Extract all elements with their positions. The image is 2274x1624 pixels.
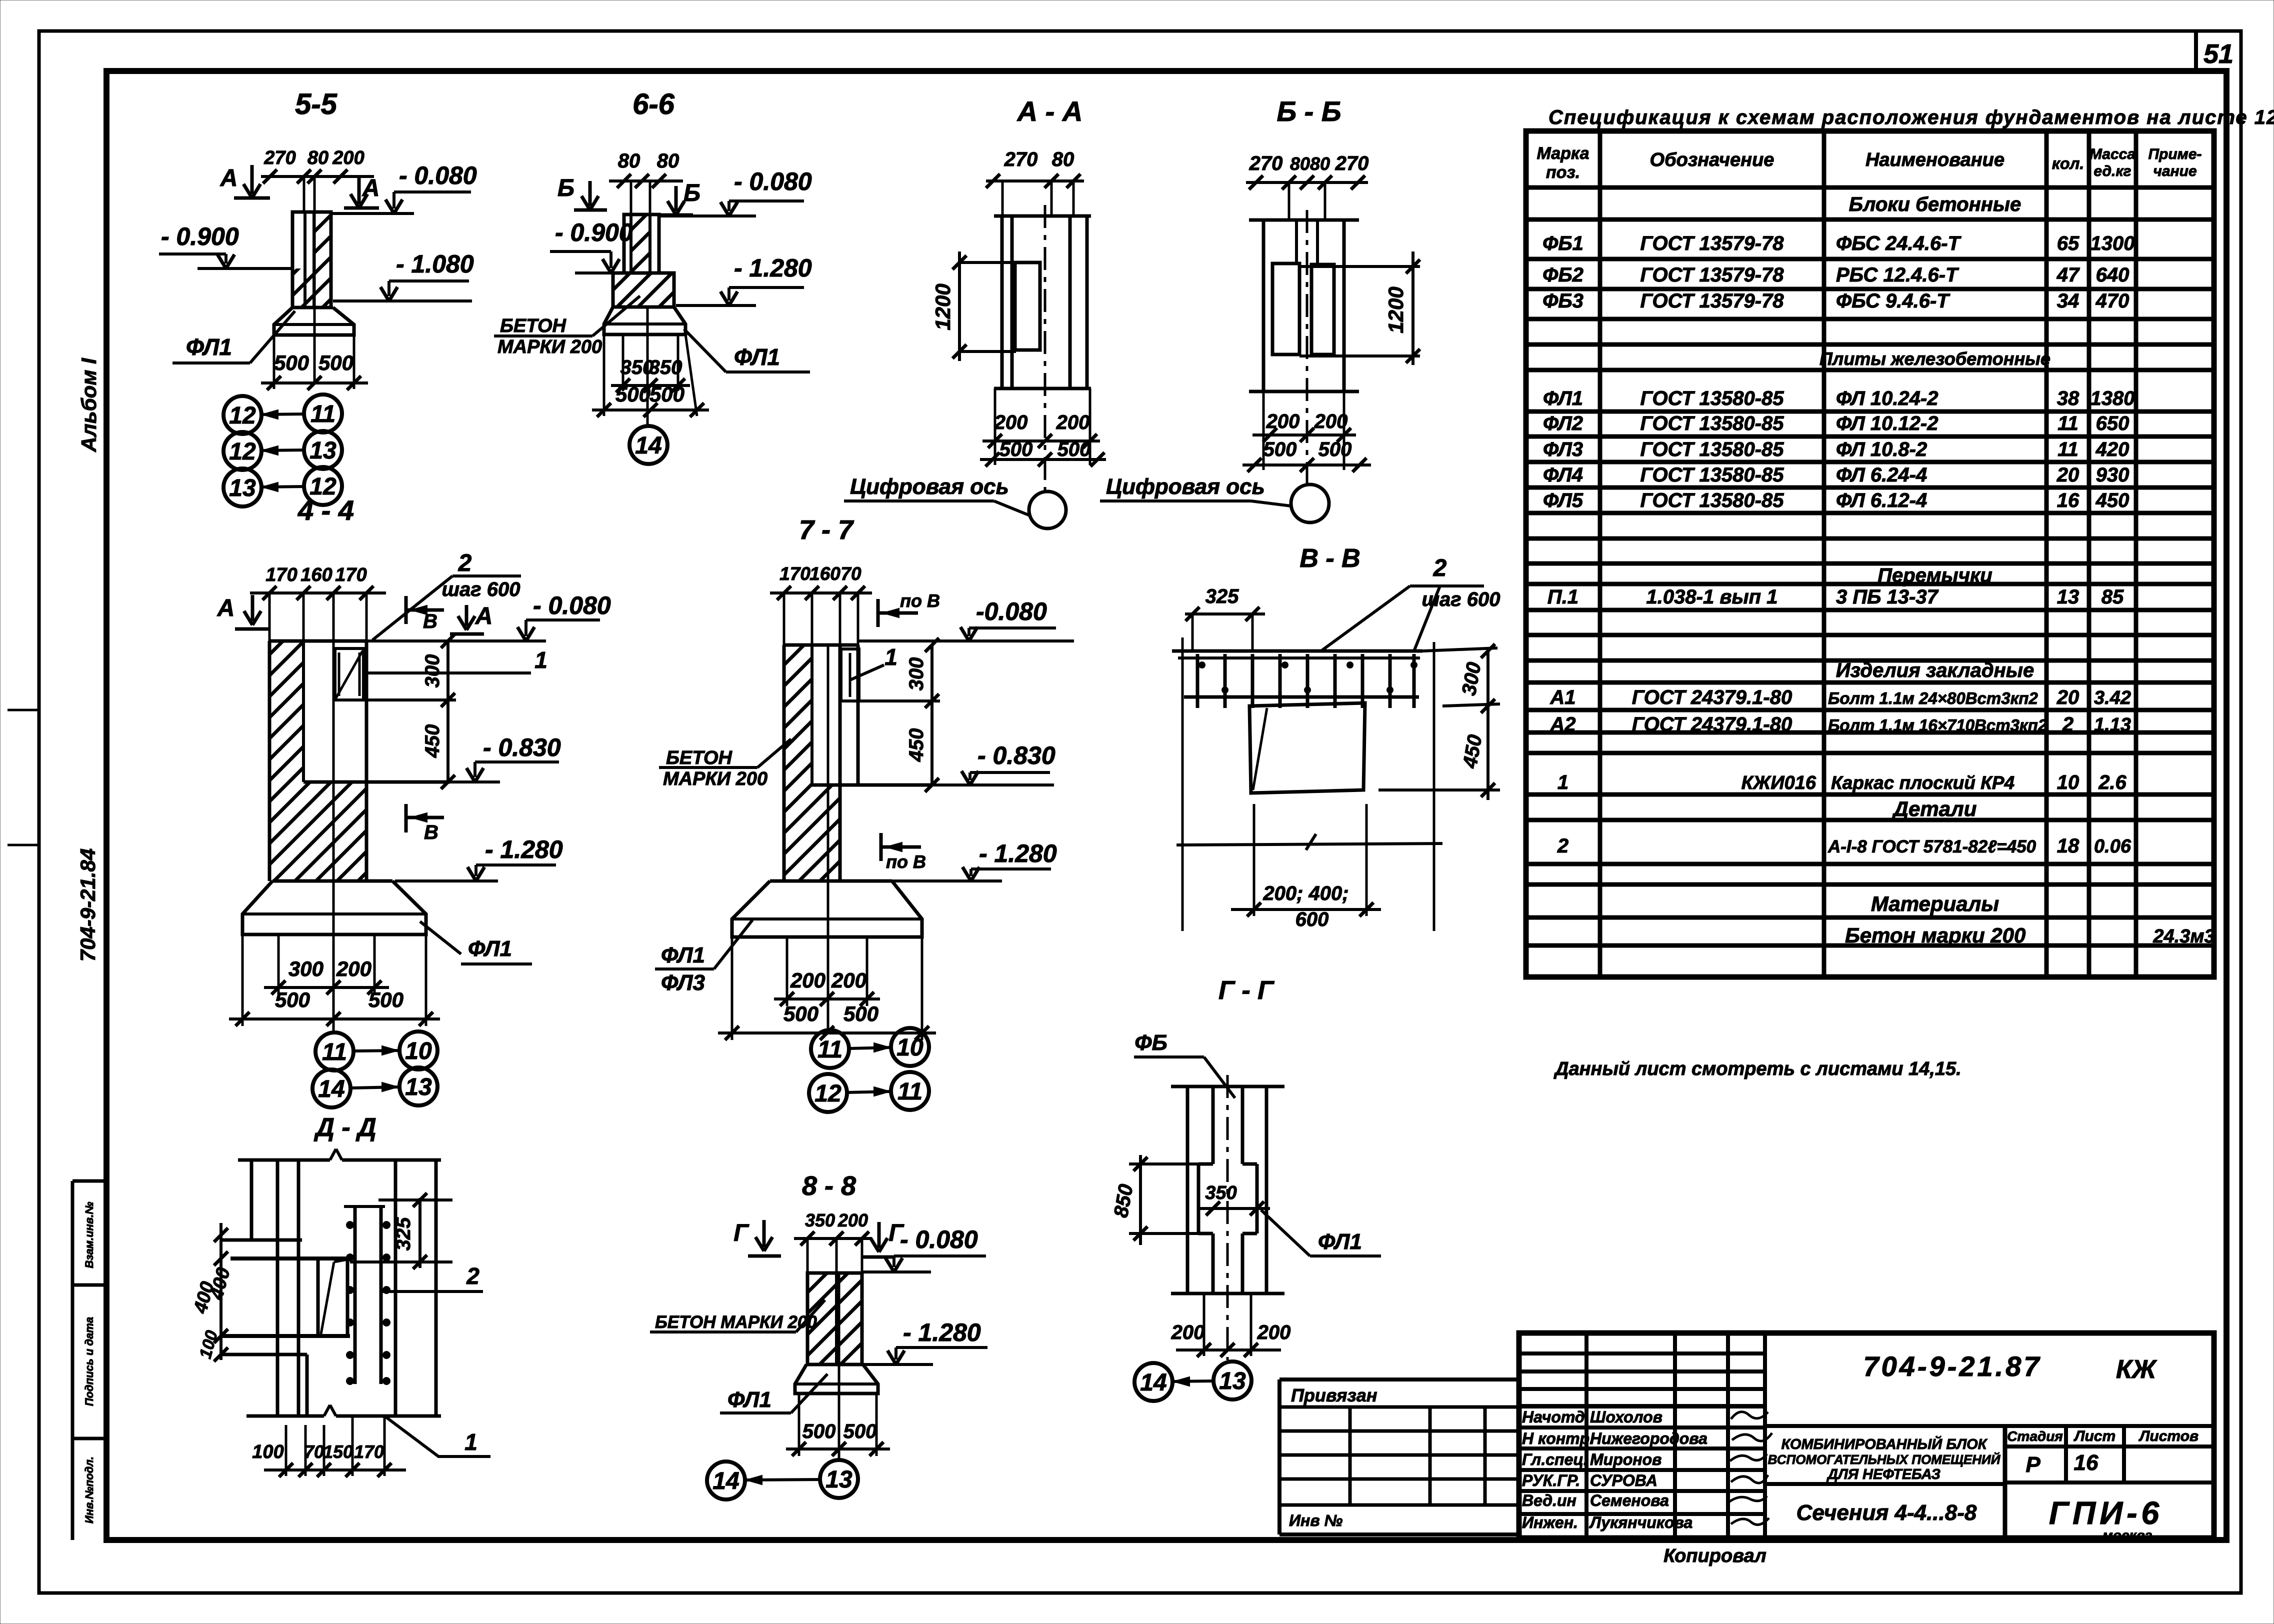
- svg-text:Сечения 4-4...8-8: Сечения 4-4...8-8: [1796, 1500, 1977, 1525]
- svg-text:13: 13: [309, 437, 336, 464]
- section D-D dimension 325: [418, 1198, 421, 1268]
- svg-text:65: 65: [2057, 232, 2079, 254]
- svg-text:160: 160: [809, 563, 840, 584]
- svg-text:ФЛ1: ФЛ1: [661, 943, 705, 967]
- svg-text:ГОСТ 13580-85: ГОСТ 13580-85: [1640, 387, 1784, 409]
- specification table outer frame: [1526, 131, 2214, 977]
- svg-text:34: 34: [2057, 290, 2079, 312]
- svg-text:Альбом I: Альбом I: [77, 357, 100, 452]
- svg-text:150: 150: [323, 1441, 353, 1462]
- section 4-4 wall outline with hatch: [269, 641, 303, 881]
- specification table header row: [1526, 185, 2214, 190]
- svg-text:Плиты железобетонные: Плиты железобетонные: [1819, 348, 2050, 369]
- svg-text:500: 500: [368, 988, 403, 1011]
- page number box 51: [2194, 31, 2198, 71]
- section V-V bent plate detail: [1249, 703, 1365, 793]
- svg-text:ФЛ 6.12-4: ФЛ 6.12-4: [1836, 489, 1927, 511]
- section A-A wall plan outline: [994, 214, 1091, 218]
- svg-text:Блоки бетонные: Блоки бетонные: [1849, 193, 2021, 215]
- section 7-7 footing trapezoid: [770, 879, 892, 883]
- section D-D wall verticals: [250, 1160, 253, 1240]
- svg-text:Б - Б: Б - Б: [1276, 95, 1341, 127]
- svg-text:ФЛ1: ФЛ1: [734, 344, 780, 370]
- svg-text:ед.кг: ед.кг: [2093, 163, 2131, 179]
- section D-D inner block with fold: [316, 1259, 320, 1335]
- svg-text:ФЛ3: ФЛ3: [1543, 438, 1583, 460]
- svg-text:КОМБИНИРОВАННЫЙ БЛОК: КОМБИНИРОВАННЫЙ БЛОК: [1781, 1435, 1987, 1452]
- section 7-7 bottom dimension 200 200: [786, 937, 788, 1006]
- svg-text:ГОСТ 24379.1-80: ГОСТ 24379.1-80: [1632, 713, 1792, 735]
- svg-text:- 0.900: - 0.900: [555, 218, 633, 246]
- section 4-4 block chain circles row 2: [312, 1069, 350, 1107]
- section 4-4 cut mark V top: [404, 596, 408, 624]
- svg-text:ГПИ-6: ГПИ-6: [2049, 1495, 2163, 1531]
- svg-text:200: 200: [332, 147, 364, 168]
- section V-V right extension line: [1433, 642, 1435, 931]
- section 4-4 footing FL1 trapezoid: [272, 879, 392, 883]
- svg-text:500: 500: [1318, 438, 1352, 460]
- section A-A centerline: [1044, 205, 1046, 491]
- svg-text:Д - Д: Д - Д: [313, 1113, 376, 1142]
- svg-text:4 - 4: 4 - 4: [297, 494, 354, 526]
- svg-text:1: 1: [534, 647, 547, 673]
- svg-text:В: В: [424, 821, 438, 843]
- svg-text:ГОСТ 13579-78: ГОСТ 13579-78: [1640, 232, 1784, 254]
- svg-text:Миронов: Миронов: [1590, 1450, 1662, 1468]
- svg-text:А: А: [217, 595, 235, 621]
- svg-text:11: 11: [322, 1039, 347, 1065]
- section 5-5 block chain circles row 1: [223, 396, 261, 434]
- svg-text:Лист: Лист: [2073, 1428, 2115, 1444]
- svg-text:13: 13: [2057, 586, 2079, 608]
- section B-B bottom dimension 200 200: [1262, 391, 1265, 470]
- section 7-7 cut mark poV bottom: [879, 833, 883, 861]
- section B-B dimension 1200: [1411, 251, 1414, 365]
- svg-text:- 0.830: - 0.830: [483, 733, 561, 761]
- svg-text:350: 350: [649, 356, 682, 378]
- svg-text:80: 80: [618, 150, 640, 172]
- svg-text:А2: А2: [1549, 713, 1575, 735]
- svg-text:Б: Б: [557, 175, 574, 201]
- section V-V bottom full dimension with break: [1176, 843, 1442, 845]
- svg-text:13: 13: [825, 1466, 852, 1493]
- svg-text:200: 200: [1314, 410, 1348, 432]
- section G-G pier stepped outline: [1211, 1086, 1215, 1164]
- svg-text:ФБ: ФБ: [1134, 1030, 1167, 1055]
- svg-text:200: 200: [790, 968, 825, 992]
- section A-A axis circle: [1029, 491, 1066, 528]
- svg-text:200: 200: [831, 968, 866, 992]
- svg-text:Инжен.: Инжен.: [1522, 1513, 1578, 1531]
- svg-text:МАРКИ 200: МАРКИ 200: [663, 768, 767, 789]
- section 5-5 footing FL1 trapezoid: [292, 306, 333, 309]
- svg-text:704-9-21.87: 704-9-21.87: [1863, 1350, 2041, 1382]
- svg-text:11: 11: [897, 1078, 922, 1105]
- svg-text:13: 13: [229, 475, 256, 501]
- section V-V rebar ladder item 2: [1172, 649, 1422, 653]
- svg-text:12: 12: [229, 402, 256, 429]
- svg-text:Р: Р: [2025, 1452, 2040, 1477]
- svg-text:ДЛЯ НЕФТЕБАЗ: ДЛЯ НЕФТЕБАЗ: [1826, 1466, 1940, 1482]
- section 6-6 upper spread block hatched: [613, 273, 674, 307]
- section G-G dimension 850: [1139, 1155, 1142, 1245]
- svg-text:14: 14: [1140, 1369, 1166, 1396]
- section 6-6 bottom dimension 350 350: [622, 334, 624, 391]
- svg-text:А1: А1: [1549, 686, 1575, 708]
- svg-text:Обозначение: Обозначение: [1650, 149, 1774, 170]
- svg-text:ФБ2: ФБ2: [1542, 264, 1583, 286]
- svg-text:ГОСТ 13579-78: ГОСТ 13579-78: [1640, 264, 1784, 286]
- svg-text:1200: 1200: [931, 283, 954, 330]
- svg-text:- 0.080: - 0.080: [399, 161, 477, 189]
- svg-text:170: 170: [354, 1441, 384, 1462]
- svg-text:640: 640: [2096, 264, 2129, 286]
- svg-text:ФЛ 10.8-2: ФЛ 10.8-2: [1836, 438, 1927, 460]
- section D-D rebar ladder vertical: [353, 1206, 357, 1384]
- svg-text:350: 350: [1205, 1182, 1236, 1203]
- title block section name cell: [1765, 1482, 2005, 1486]
- section 6-6 column with hatch: [624, 214, 659, 273]
- section B-B left block outline: [1272, 263, 1299, 354]
- svg-text:А: А: [220, 165, 238, 191]
- svg-text:1200: 1200: [1384, 286, 1407, 333]
- svg-text:270: 270: [1335, 152, 1369, 174]
- svg-text:500: 500: [802, 1420, 836, 1442]
- svg-text:Цифровая ось: Цифровая ось: [850, 474, 1009, 499]
- svg-text:ГОСТ 13580-85: ГОСТ 13580-85: [1640, 412, 1784, 434]
- svg-text:13: 13: [405, 1074, 432, 1100]
- svg-text:170: 170: [335, 564, 366, 585]
- svg-text:В - В: В - В: [1299, 544, 1360, 573]
- section 4-4 label FL1: [420, 921, 461, 954]
- svg-text:300: 300: [905, 657, 927, 691]
- section D-D bottom dimensions 100 70 150 170: [285, 1425, 287, 1476]
- section G-G centerline: [1226, 1075, 1229, 1360]
- svg-text:ФЛ 10.12-2: ФЛ 10.12-2: [1836, 412, 1938, 434]
- section D-D callout 2: [382, 1290, 483, 1293]
- svg-text:1300: 1300: [2090, 232, 2135, 254]
- svg-text:Б: Б: [683, 180, 700, 206]
- svg-text:500: 500: [843, 1420, 877, 1442]
- svg-text:470: 470: [2095, 290, 2129, 312]
- svg-text:200; 400;: 200; 400;: [1262, 882, 1348, 904]
- section V-V left extension line: [1181, 637, 1184, 931]
- svg-text:200: 200: [336, 957, 371, 980]
- svg-text:Г: Г: [733, 1220, 749, 1246]
- title block signature rows: [1519, 1404, 1765, 1408]
- svg-text:А: А: [475, 603, 493, 629]
- svg-text:24.3м3: 24.3м3: [2152, 926, 2214, 947]
- svg-text:500: 500: [275, 988, 310, 1011]
- svg-text:160: 160: [300, 564, 332, 585]
- svg-text:СУРОВА: СУРОВА: [1590, 1471, 1657, 1489]
- section 4-4 callout 1 leader: [363, 671, 531, 674]
- section 4-4 block chain circles row 1: [315, 1032, 353, 1070]
- svg-text:200: 200: [994, 411, 1028, 433]
- svg-text:3.42: 3.42: [2094, 687, 2131, 708]
- section 7-7 wall outline with hatch: [784, 645, 812, 881]
- svg-text:2: 2: [1433, 555, 1447, 581]
- title block stage sheet header: [2003, 1426, 2007, 1538]
- svg-text:8 - 8: 8 - 8: [802, 1171, 856, 1201]
- svg-text:- 1.080: - 1.080: [396, 250, 474, 278]
- section D-D wall plan top line with break: [238, 1158, 330, 1162]
- section B-B centerline: [1306, 210, 1308, 484]
- svg-text:по В: по В: [886, 851, 926, 872]
- section 5-5 column with hatch: [292, 212, 331, 307]
- svg-text:Инв.№подл.: Инв.№подл.: [83, 1456, 95, 1523]
- section 7-7 callout 1 leader: [850, 665, 884, 680]
- svg-text:200: 200: [1266, 410, 1300, 432]
- svg-text:500: 500: [274, 351, 309, 374]
- svg-text:Изделия закладные: Изделия закладные: [1836, 659, 2034, 681]
- svg-text:1: 1: [884, 644, 897, 670]
- svg-text:500: 500: [999, 438, 1033, 460]
- svg-text:325: 325: [1205, 585, 1239, 607]
- svg-text:1.038-1 вып 1: 1.038-1 вып 1: [1646, 586, 1778, 608]
- svg-text:ФЛ 6.24-4: ФЛ 6.24-4: [1836, 464, 1927, 486]
- svg-text:1: 1: [464, 1429, 477, 1455]
- svg-text:14: 14: [318, 1076, 344, 1102]
- svg-text:москва: москва: [2102, 1527, 2152, 1543]
- svg-text:51: 51: [2203, 39, 2233, 69]
- title block outer frame: [1519, 1333, 2214, 1538]
- svg-text:500: 500: [1263, 438, 1297, 460]
- section 6-6 bottom dimension 500 500: [603, 334, 605, 416]
- svg-text:шаг 600: шаг 600: [441, 578, 520, 600]
- svg-text:450: 450: [2095, 489, 2129, 511]
- svg-text:500: 500: [1057, 438, 1091, 460]
- section 6-6 axis line: [646, 307, 649, 426]
- svg-text:Нижегородова: Нижегородова: [1590, 1429, 1707, 1447]
- svg-text:300: 300: [421, 654, 443, 688]
- svg-text:500: 500: [318, 351, 353, 374]
- section B-B axis circle: [1291, 484, 1329, 522]
- section D-D bottom line with break: [246, 1414, 324, 1418]
- section 7-7 block chain circles row 1: [811, 1030, 849, 1068]
- svg-text:70: 70: [304, 1441, 324, 1462]
- svg-text:12: 12: [814, 1080, 841, 1107]
- section B-B right block outline: [1311, 264, 1334, 354]
- svg-text:Листов: Листов: [2138, 1428, 2198, 1444]
- svg-text:ГОСТ 13580-85: ГОСТ 13580-85: [1640, 464, 1784, 486]
- svg-text:47: 47: [2056, 264, 2080, 286]
- svg-text:ФЛ2: ФЛ2: [1543, 412, 1583, 434]
- svg-text:ФЛ1: ФЛ1: [1543, 387, 1583, 409]
- svg-text:РБС 12.4.6-Т: РБС 12.4.6-Т: [1836, 264, 1959, 286]
- section 4-4 bottom dimension 300 200: [241, 934, 244, 1026]
- section A-A bottom dimension 200 200: [994, 388, 996, 465]
- svg-text:КЖ: КЖ: [2116, 1355, 2157, 1384]
- svg-text:600: 600: [1295, 908, 1329, 930]
- svg-text:1: 1: [1557, 771, 1568, 793]
- svg-text:500: 500: [615, 382, 650, 406]
- specification table row lines: [1526, 217, 2214, 222]
- svg-text:270: 270: [1004, 148, 1038, 170]
- svg-text:ФБС 9.4.6-Т: ФБС 9.4.6-Т: [1836, 290, 1950, 312]
- svg-text:2.6: 2.6: [2098, 771, 2126, 793]
- svg-text:- 0.830: - 0.830: [977, 741, 1055, 769]
- svg-text:чание: чание: [2153, 163, 2196, 179]
- svg-text:П.1: П.1: [1547, 586, 1578, 608]
- section D-D step lines: [222, 1238, 302, 1242]
- svg-text:1.13: 1.13: [2094, 714, 2131, 735]
- svg-text:Бетон марки 200: Бетон марки 200: [1845, 923, 2025, 947]
- svg-text:КЖИ016: КЖИ016: [1741, 772, 1816, 793]
- svg-text:Цифровая ось: Цифровая ось: [1106, 474, 1265, 499]
- section 7-7 bottom dimension 500 500: [731, 937, 733, 1040]
- title block document number cell: [1765, 1424, 2214, 1428]
- svg-text:16: 16: [2074, 1450, 2098, 1475]
- section 4-4 cut mark V bottom: [404, 804, 408, 832]
- section 8-8 axis line: [838, 1273, 840, 1461]
- svg-text:200: 200: [1056, 411, 1090, 433]
- svg-text:2: 2: [466, 1263, 479, 1289]
- svg-text:Материалы: Материалы: [1871, 892, 1999, 915]
- svg-text:11: 11: [2057, 412, 2078, 434]
- svg-text:БЕТОН: БЕТОН: [666, 747, 733, 768]
- svg-text:450: 450: [421, 724, 443, 758]
- svg-text:Стадия: Стадия: [2007, 1428, 2063, 1444]
- svg-text:11: 11: [817, 1036, 842, 1063]
- section G-G block chain circles: [1134, 1363, 1172, 1401]
- svg-text:11: 11: [310, 401, 335, 427]
- svg-text:Перемычки: Перемычки: [1877, 564, 1992, 586]
- svg-text:500: 500: [649, 382, 684, 406]
- svg-text:2: 2: [458, 550, 472, 576]
- section 8-8 footing FL1 trapezoid: [806, 1363, 863, 1366]
- svg-text:- 0.080: - 0.080: [533, 591, 611, 619]
- section 6-6 axis circle 14: [629, 426, 667, 464]
- svg-text:80: 80: [1052, 148, 1074, 170]
- svg-text:- 0.900: - 0.900: [161, 222, 239, 250]
- section 4-4 recess shelf line: [303, 780, 450, 784]
- svg-text:ФЛ4: ФЛ4: [1543, 464, 1583, 486]
- svg-text:РУК.ГР.: РУК.ГР.: [1522, 1471, 1580, 1489]
- svg-text:ФБ3: ФБ3: [1542, 290, 1583, 312]
- svg-text:по В: по В: [900, 590, 940, 611]
- svg-text:Приме-: Приме-: [2148, 146, 2201, 162]
- section 7-7 dimension 300 450 vertical: [930, 645, 933, 785]
- svg-text:650: 650: [2096, 412, 2129, 434]
- svg-text:кол.: кол.: [2052, 154, 2084, 172]
- svg-text:6-6: 6-6: [632, 88, 675, 120]
- svg-text:80: 80: [307, 147, 328, 168]
- svg-text:3 ПБ 13-37: 3 ПБ 13-37: [1836, 586, 1939, 608]
- section 8-8 column with hatch: [807, 1273, 862, 1364]
- svg-text:38: 38: [2057, 387, 2079, 409]
- svg-text:20: 20: [2056, 686, 2079, 708]
- svg-text:- 1.280: - 1.280: [903, 1318, 981, 1346]
- svg-text:- 1.280: - 1.280: [485, 835, 563, 863]
- bottom-left stamp column: [71, 1181, 74, 1540]
- svg-text:200: 200: [1257, 1321, 1291, 1343]
- svg-text:930: 930: [2096, 464, 2129, 486]
- svg-text:ФЛ5: ФЛ5: [1543, 489, 1583, 511]
- svg-text:Лукянчикова: Лукянчикова: [1589, 1513, 1692, 1531]
- svg-text:325: 325: [392, 1217, 414, 1250]
- svg-text:14: 14: [635, 432, 661, 459]
- title block privyazan sub-table: [1279, 1377, 1519, 1381]
- section 5-5 bottom dimension 500 500: [273, 335, 275, 389]
- svg-text:Каркас плоский КР4: Каркас плоский КР4: [1831, 772, 2014, 793]
- svg-text:170: 170: [779, 563, 810, 584]
- section 5-5 axis line: [313, 212, 316, 383]
- svg-text:Взам.инв.№: Взам.инв.№: [83, 1201, 95, 1268]
- section G-G wall plan outline: [1171, 1085, 1284, 1088]
- svg-text:поз.: поз.: [1546, 163, 1580, 182]
- section 4-4 rebar cage 1 in recess: [335, 648, 363, 700]
- svg-text:Семенова: Семенова: [1590, 1491, 1669, 1509]
- section D-D callout 1: [384, 1416, 490, 1456]
- svg-text:Марка: Марка: [1537, 144, 1589, 163]
- svg-text:12: 12: [229, 438, 256, 465]
- section 8-8 block chain circles: [707, 1461, 745, 1499]
- svg-text:Детали: Детали: [1892, 797, 1977, 820]
- svg-text:ФЛ1: ФЛ1: [468, 936, 512, 961]
- svg-text:БЕТОН МАРКИ 200: БЕТОН МАРКИ 200: [655, 1312, 817, 1332]
- svg-text:- 1.280: - 1.280: [979, 839, 1057, 867]
- section A-A block outline: [1015, 262, 1040, 350]
- section 7-7 cut mark poV top: [876, 599, 880, 627]
- svg-text:5-5: 5-5: [295, 88, 337, 120]
- svg-text:ВСПОМОГАТЕЛЬНЫХ ПОМЕЩЕНИЙ: ВСПОМОГАТЕЛЬНЫХ ПОМЕЩЕНИЙ: [1768, 1452, 2001, 1467]
- svg-text:500: 500: [843, 1002, 878, 1025]
- section D-D left dimensions 400 400 100: [219, 1223, 222, 1360]
- specification table column lines: [1598, 131, 1602, 977]
- title block signature scribbles: [1729, 1412, 1772, 1525]
- svg-text:Спецификация к схемам располож: Спецификация к схемам расположения фунда…: [1548, 106, 2274, 128]
- svg-text:Наименование: Наименование: [1865, 149, 2004, 170]
- svg-text:ГОСТ 13580-85: ГОСТ 13580-85: [1640, 489, 1784, 511]
- title block GPI-6 logo: [2005, 1480, 2214, 1484]
- svg-text:13: 13: [1219, 1368, 1246, 1394]
- svg-text:Данный лист смотреть с листа: Данный лист смотреть с листами 14,15.: [1553, 1058, 1961, 1079]
- svg-text:200: 200: [1171, 1321, 1205, 1343]
- svg-text:200: 200: [837, 1210, 868, 1230]
- svg-text:ФЛ1: ФЛ1: [1318, 1229, 1362, 1254]
- svg-text:11: 11: [2057, 438, 2078, 460]
- svg-text:ГОСТ 13579-78: ГОСТ 13579-78: [1640, 290, 1784, 312]
- section 4-4 dimension 300 vertical: [446, 641, 449, 782]
- svg-text:Болт 1.1м 24×80Вст3кп2: Болт 1.1м 24×80Вст3кп2: [1828, 689, 2038, 707]
- svg-text:1380: 1380: [2090, 387, 2135, 409]
- svg-text:70: 70: [840, 563, 861, 584]
- svg-text:10: 10: [2057, 771, 2079, 793]
- svg-text:- 0.080: - 0.080: [734, 167, 812, 195]
- section G-G bottom dimension 200 200: [1203, 1293, 1205, 1356]
- section 7-7 recess shelf line: [812, 783, 932, 787]
- svg-text:270: 270: [1249, 152, 1283, 174]
- section 4-4 axis line: [332, 593, 335, 1031]
- svg-text:МАРКИ 200: МАРКИ 200: [497, 336, 602, 357]
- section V-V right dimension 300 450: [1486, 648, 1489, 800]
- svg-text:Г - Г: Г - Г: [1218, 976, 1274, 1005]
- svg-text:Шохолов: Шохолов: [1590, 1408, 1662, 1426]
- section 6-6 footing trapezoid: [604, 307, 685, 334]
- svg-text:10: 10: [405, 1038, 432, 1064]
- svg-text:Начотд: Начотд: [1522, 1408, 1585, 1426]
- svg-text:А - А: А - А: [1016, 95, 1083, 127]
- svg-text:7 - 7: 7 - 7: [799, 515, 854, 545]
- svg-text:- 1.280: - 1.280: [734, 254, 812, 282]
- section 7-7 axis line: [827, 645, 829, 1031]
- section 5-5 block chain circles row 2: [223, 432, 261, 470]
- section 7-7 block chain circles row 2: [809, 1074, 847, 1112]
- svg-text:Привязан: Привязан: [1291, 1385, 1377, 1405]
- svg-text:14: 14: [712, 1468, 739, 1494]
- svg-text:ФЛ 10.24-2: ФЛ 10.24-2: [1836, 387, 1938, 409]
